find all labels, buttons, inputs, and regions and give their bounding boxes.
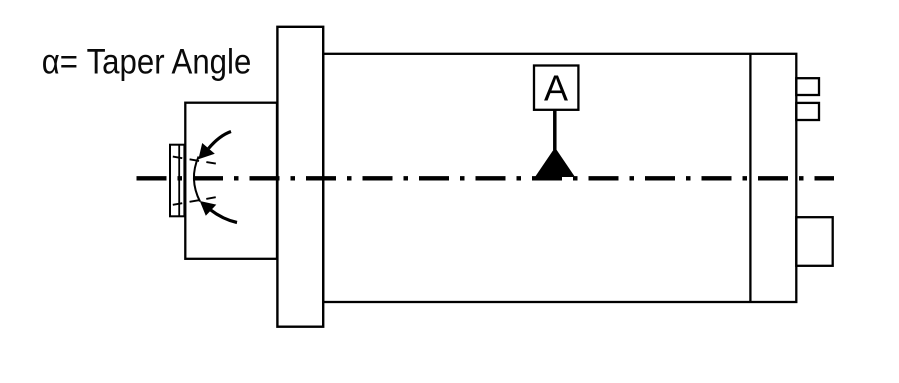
svg-text:A: A: [544, 68, 568, 109]
svg-text:α= Taper Angle: α= Taper Angle: [42, 41, 252, 81]
